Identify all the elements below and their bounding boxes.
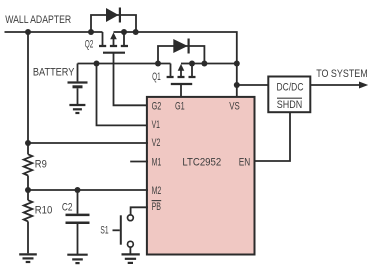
svg-text:TO SYSTEM: TO SYSTEM: [316, 68, 368, 80]
svg-text:VS: VS: [229, 100, 240, 112]
wire: EN to DC/DC shutdown: [254, 112, 290, 161]
capacitor C2: [66, 190, 90, 254]
wire: battery to Q1 source: [78, 63, 171, 65]
svg-text:C2: C2: [62, 201, 73, 213]
pin PB (active low): [152, 200, 162, 202]
wire: rail to V2 pin: [28, 142, 148, 144]
node: Q2 drain: [121, 29, 127, 35]
node: VS rail / Q1 output junction: [234, 61, 240, 67]
node: Q1 diode cathode: [201, 61, 207, 67]
label SHDN (active low): [277, 97, 302, 99]
svg-text:Q2: Q2: [85, 39, 94, 51]
ground: S1: [122, 254, 140, 263]
node: Q1 diode anode: [155, 61, 161, 67]
wire: S1 to ground: [129, 247, 131, 254]
body diode of Q2: [91, 8, 136, 33]
resistor R9: [24, 154, 33, 175]
wire: M1 sense stub: [130, 161, 148, 163]
wire: battery node to V1 pin: [97, 64, 149, 126]
resistor R10: [24, 200, 33, 221]
arrowhead: to system: [359, 82, 368, 89]
svg-text:EN: EN: [239, 156, 251, 168]
ground: C2: [67, 255, 87, 263]
wire: rail to DC/DC input: [237, 84, 268, 86]
svg-text:G2: G2: [152, 100, 162, 112]
wire: Q1 drain to VS rail: [192, 63, 237, 65]
op-amp U1: LTC2952 IC body: [147, 97, 255, 255]
svg-text:S1: S1: [100, 225, 108, 237]
node: Q2 diode cathode: [133, 29, 139, 35]
wire: PB pin to switch S1: [131, 207, 148, 214]
svg-text:R10: R10: [35, 205, 53, 217]
node: battery / V1 junction: [94, 61, 100, 67]
body diode of Q1: [158, 39, 204, 64]
wire: DC/DC output to system: [310, 84, 360, 86]
wire: R10 to ground: [27, 221, 29, 253]
svg-text:G1: G1: [175, 100, 185, 112]
svg-text:M1: M1: [152, 156, 162, 168]
node: C2 / M2 junction: [75, 187, 81, 193]
svg-text:LTC2952: LTC2952: [182, 156, 221, 168]
switch S1 (push button): [113, 215, 134, 247]
node: wall adapter / R9 rail junction: [25, 29, 31, 35]
node: V2 / rail junction: [25, 140, 31, 146]
ground: R10: [19, 254, 37, 262]
svg-text:V2: V2: [152, 137, 161, 149]
node: Q2 diode anode: [88, 29, 94, 35]
node: VS rail / DC-DC input junction: [234, 82, 240, 88]
svg-text:PB: PB: [152, 201, 161, 213]
transistor Q1 (PMOS): [167, 64, 196, 85]
wire: top rail from Q2 drain to VS: [124, 32, 237, 97]
svg-text:BATTERY: BATTERY: [33, 67, 75, 79]
battery symbol: [68, 64, 88, 105]
svg-text:SHDN: SHDN: [277, 99, 303, 111]
transistor Q2 (PMOS): [99, 32, 128, 53]
svg-text:WALL ADAPTER: WALL ADAPTER: [5, 14, 71, 26]
wire: left rail down to R9: [27, 32, 29, 154]
svg-text:R9: R9: [35, 159, 47, 171]
svg-text:DC/DC: DC/DC: [277, 82, 304, 94]
wire: R9 to M2 node: [27, 176, 29, 201]
svg-text:M2: M2: [152, 185, 162, 197]
wire: Q2 gate to G2 pin: [114, 53, 149, 106]
node: Q1 drain: [189, 61, 195, 67]
wire: divider tap to M2 pin: [28, 189, 148, 191]
svg-text:V1: V1: [152, 119, 160, 131]
wire: Q1 gate to G1 pin: [180, 84, 182, 97]
DC/DC converter block: [268, 77, 310, 113]
wire: wall adapter input rail: [5, 31, 103, 33]
node: R9/R10/M2 junction: [25, 187, 31, 193]
svg-text:Q1: Q1: [152, 71, 161, 83]
ground: battery: [69, 105, 85, 113]
